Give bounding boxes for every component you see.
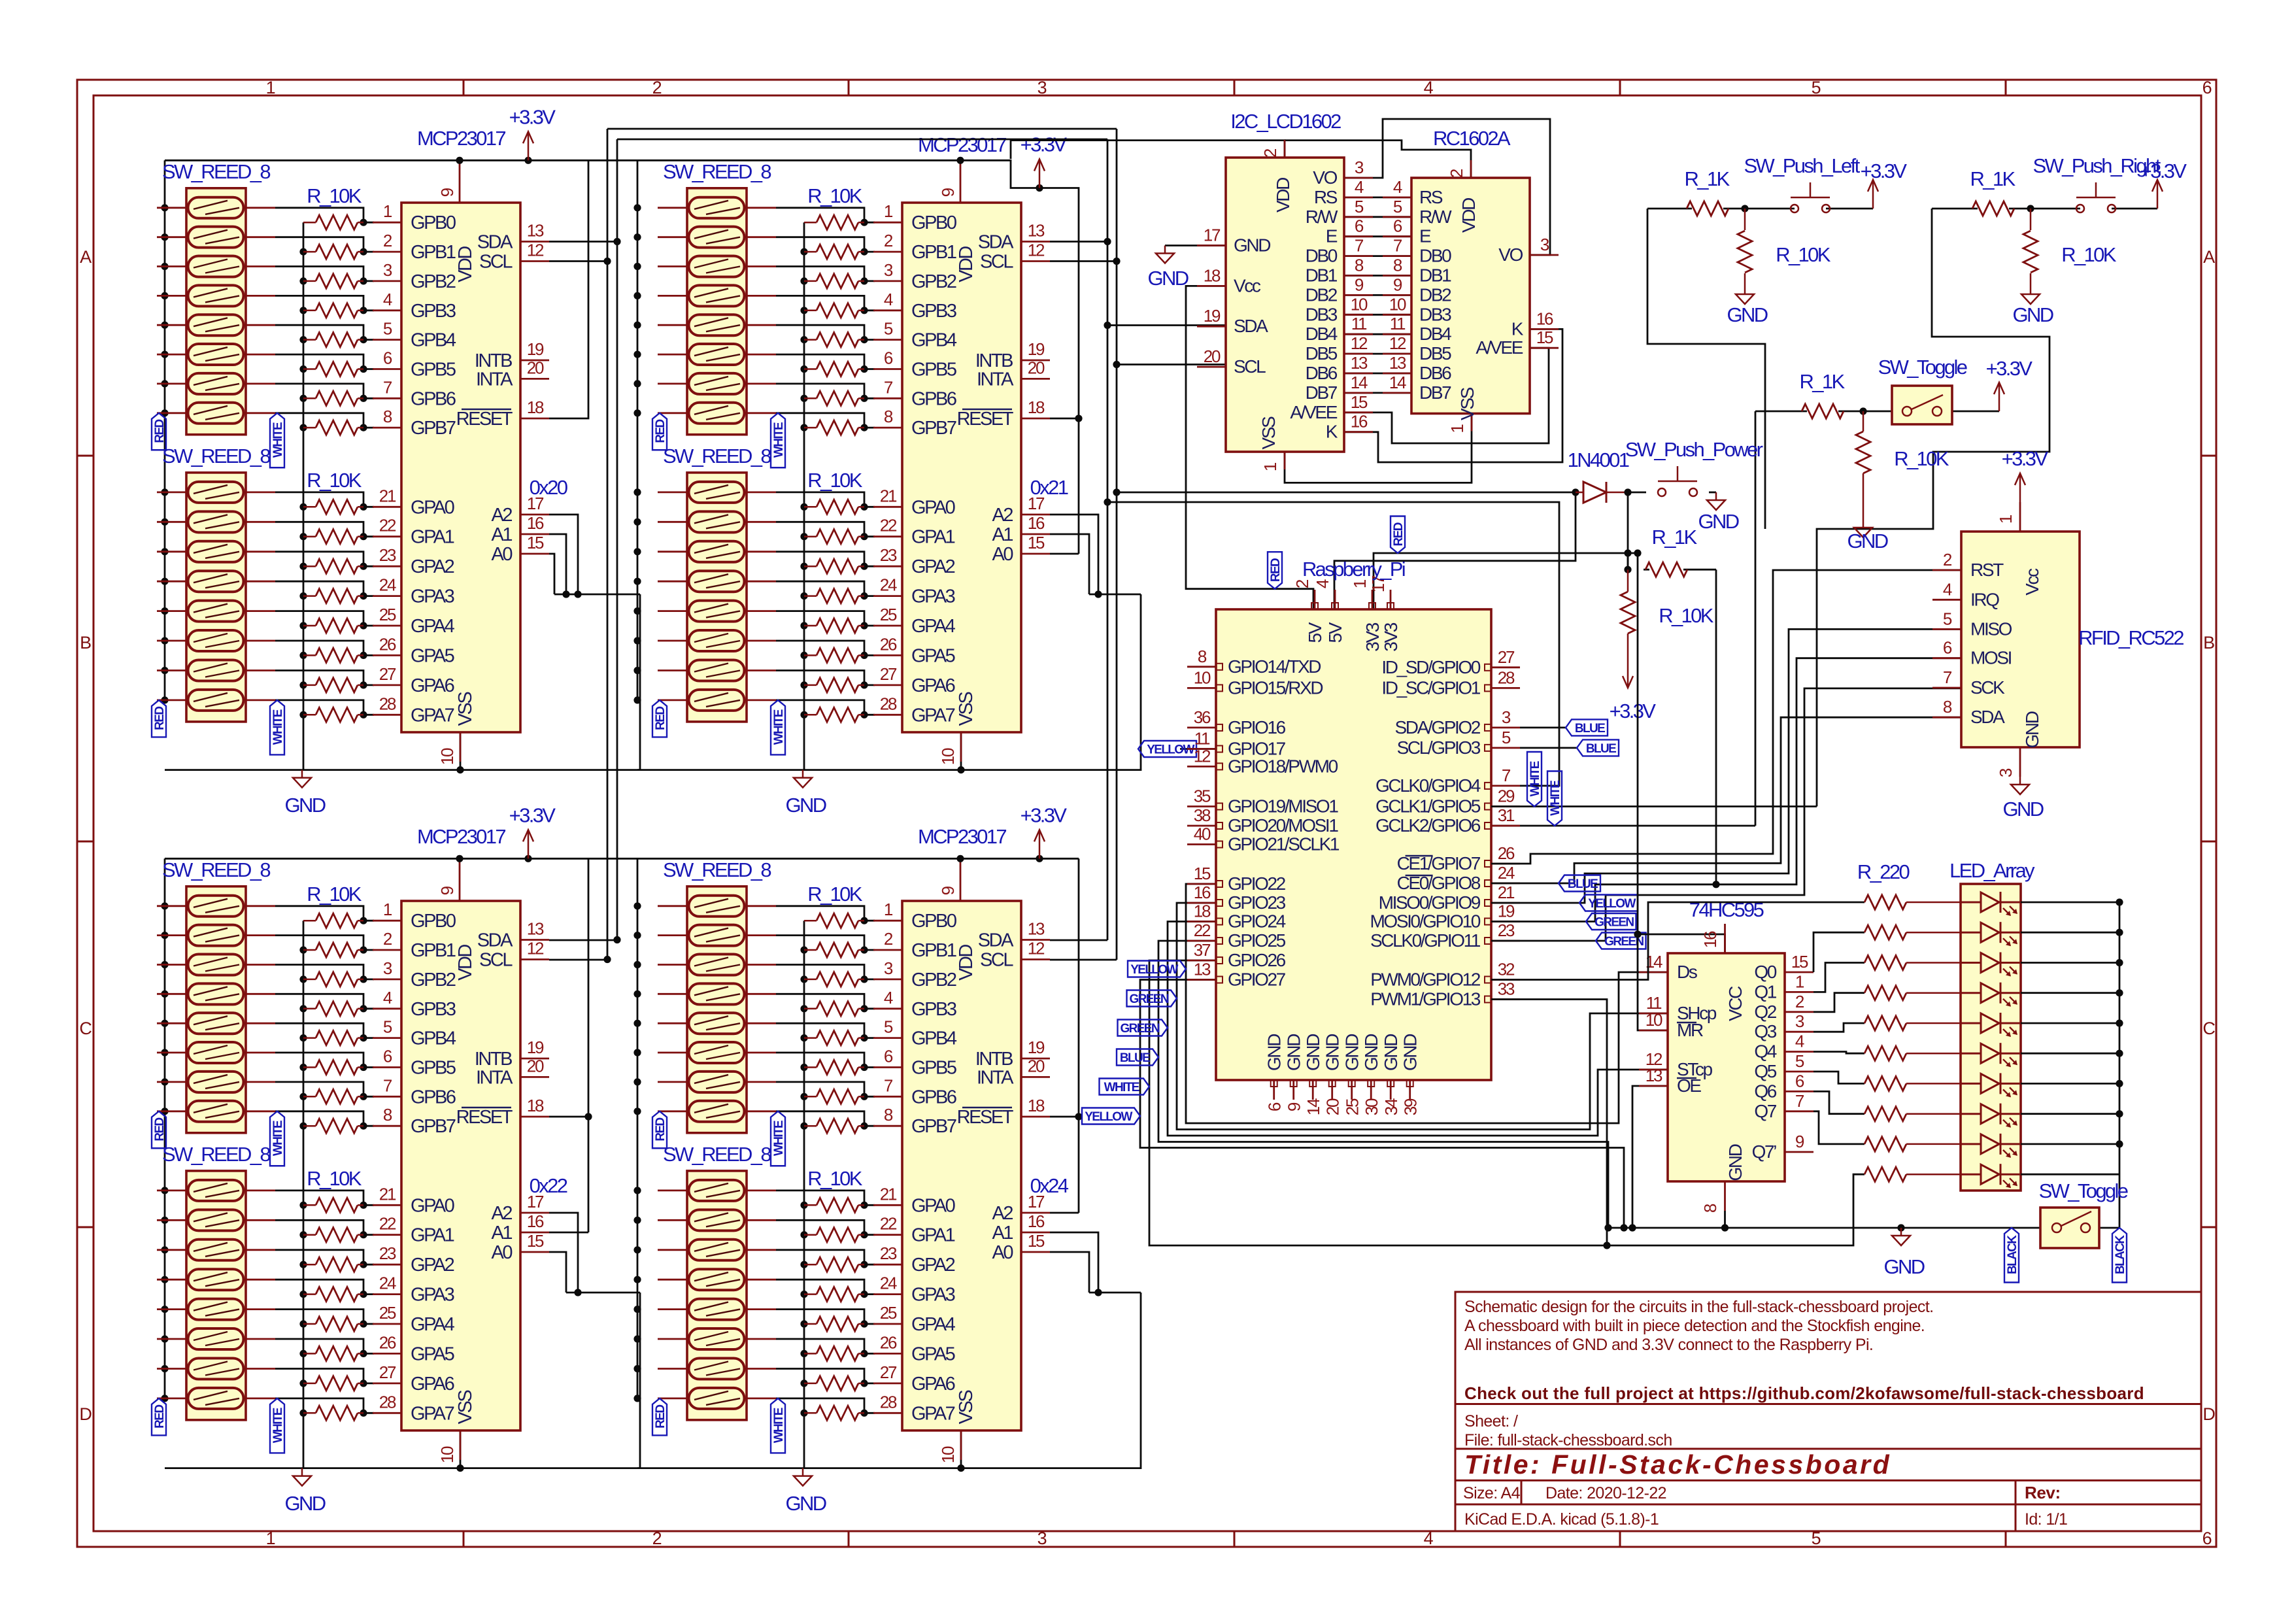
- svg-text:7: 7: [1795, 1091, 1804, 1111]
- resistor network R_10K lower (block 0x22): [303, 1198, 363, 1420]
- svg-text:GPB1: GPB1: [411, 242, 456, 263]
- svg-text:IRQ: IRQ: [1970, 589, 1999, 609]
- svg-text:Size: A4: Size: A4: [1463, 1484, 1521, 1502]
- svg-text:BLACK: BLACK: [2006, 1235, 2019, 1274]
- svg-text:GPA7: GPA7: [911, 705, 955, 726]
- junction dot VDD rail (block 0x21): [956, 157, 964, 164]
- svg-text:GND: GND: [1264, 1034, 1285, 1071]
- title block comment text: [1464, 1298, 1933, 1354]
- svg-text:6: 6: [1393, 216, 1402, 236]
- resistor R_10K GPA4 (block 0x21): [804, 618, 864, 633]
- svg-text:23: 23: [1498, 921, 1515, 940]
- svg-text:SW_REED_8: SW_REED_8: [162, 1143, 270, 1166]
- svg-text:SW_Push_Left: SW_Push_Left: [1744, 154, 1860, 177]
- svg-text:A: A: [2203, 247, 2215, 267]
- net label GREEN (GPIO23): [1127, 990, 1177, 1007]
- resistor R_1K (push left): [1687, 201, 1729, 216]
- resistor network R_10K lower (block 0x24): [804, 1198, 864, 1420]
- svg-text:9: 9: [1355, 275, 1364, 294]
- junction dots resistor common (block 0x20): [299, 248, 307, 719]
- svg-text:RESET: RESET: [957, 409, 1014, 430]
- resistor R_10K GPA7 (block 0x24): [804, 1406, 864, 1420]
- svg-text:BLUE: BLUE: [1568, 877, 1598, 891]
- wire reed common bus (block 0x21): [637, 160, 639, 700]
- MCP23017 I/O expander (block 0x20): [373, 160, 549, 765]
- svg-text:11: 11: [1194, 729, 1210, 749]
- svg-text:21: 21: [880, 486, 897, 505]
- border row letters: [79, 247, 2215, 1424]
- resistor R_10K GPB1 (block 0x22): [303, 943, 363, 957]
- svg-text:+3.3V: +3.3V: [2002, 447, 2049, 470]
- svg-text:Title: Full-Stack-Chessboard: Title: Full-Stack-Chessboard: [1464, 1449, 1891, 1480]
- svg-text:GPA5: GPA5: [411, 1344, 454, 1364]
- svg-text:1: 1: [1260, 462, 1280, 471]
- resistor array R_220: [1864, 895, 1961, 1181]
- svg-text:+3.3V: +3.3V: [1020, 804, 1068, 826]
- svg-text:R_10K: R_10K: [807, 184, 863, 207]
- svg-text:6: 6: [1355, 216, 1364, 236]
- svg-text:GPA2: GPA2: [911, 556, 955, 577]
- svg-text:GPB0: GPB0: [911, 212, 956, 233]
- svg-text:DB6: DB6: [1306, 363, 1338, 383]
- wire 3V3 pin feed: [1374, 549, 1638, 609]
- svg-text:R_10K: R_10K: [807, 1167, 863, 1190]
- svg-text:8: 8: [383, 407, 392, 426]
- svg-text:RED: RED: [153, 1405, 167, 1429]
- resistor R_10K GPB1 (block 0x24): [804, 943, 864, 957]
- svg-text:ID_SC/GPIO1: ID_SC/GPIO1: [1381, 677, 1480, 698]
- svg-text:SCL: SCL: [980, 252, 1013, 273]
- svg-text:VSS: VSS: [956, 692, 977, 726]
- svg-text:GPB4: GPB4: [911, 1028, 957, 1049]
- svg-text:31: 31: [1498, 805, 1515, 825]
- svg-text:15: 15: [1028, 533, 1045, 552]
- net label RED (block 0x20 upper): [152, 413, 166, 450]
- svg-text:RED: RED: [654, 419, 667, 443]
- junction dot SW_Push_Right: [2027, 205, 2034, 212]
- svg-text:Ds: Ds: [1677, 962, 1697, 982]
- svg-text:A2: A2: [992, 1203, 1013, 1224]
- svg-text:BLACK: BLACK: [2114, 1235, 2127, 1274]
- resistor R_10K GPA2 (block 0x22): [303, 1257, 363, 1272]
- reed switch array SW_REED_8 upper (block 0x21): [658, 188, 776, 435]
- MCP23017 I/O expander (block 0x21): [873, 160, 1050, 765]
- resistor R_10K GPA6 (block 0x21): [804, 678, 864, 692]
- svg-text:GREEN: GREEN: [1594, 916, 1634, 930]
- svg-text:25: 25: [379, 1303, 396, 1323]
- reed switch array SW_REED_8 lower (block 0x20): [157, 473, 275, 722]
- svg-text:GPB6: GPB6: [911, 388, 956, 409]
- net label GREEN (SCLK0/GPIO11): [1596, 933, 1646, 949]
- resistor R_220 LED2: [1864, 956, 1961, 970]
- svg-text:24: 24: [379, 1274, 396, 1293]
- svg-text:12: 12: [1194, 746, 1211, 766]
- svg-text:GCLK2/GPIO6: GCLK2/GPIO6: [1375, 815, 1481, 836]
- svg-text:GPA4: GPA4: [411, 616, 455, 637]
- svg-text:15: 15: [1351, 392, 1368, 412]
- wires address pins (block 0x22): [549, 1113, 640, 1296]
- svg-text:VCC: VCC: [1725, 986, 1746, 1021]
- resistor R_10K GPB2 (block 0x21): [804, 274, 864, 288]
- wire LCD Vcc to Raspberry Pi 5V: [1186, 286, 1313, 609]
- svg-text:LED_Array: LED_Array: [1949, 859, 2035, 882]
- svg-text:GPB7: GPB7: [411, 418, 456, 439]
- svg-text:Sheet: /: Sheet: /: [1464, 1412, 1518, 1430]
- resistor R_220 LED4: [1864, 1016, 1961, 1030]
- svg-text:DB6: DB6: [1419, 363, 1451, 383]
- +3.3V power symbol (block 0x24): [1034, 830, 1045, 862]
- svg-text:GPA5: GPA5: [411, 645, 454, 666]
- svg-text:18: 18: [1204, 265, 1221, 285]
- resistor R_220 LED5: [1864, 1046, 1961, 1060]
- svg-text:20: 20: [527, 358, 544, 377]
- junction dots at resistor outputs (block 0x21): [860, 219, 868, 719]
- svg-text:16: 16: [1194, 883, 1211, 902]
- svg-text:6: 6: [1795, 1071, 1804, 1091]
- svg-text:16: 16: [527, 513, 544, 533]
- +3.3V symbol (toggle): [1994, 382, 2004, 411]
- wire MCP block1 SCL to trunk: [549, 260, 607, 262]
- net label RED (block 0x21 lower): [652, 700, 667, 737]
- svg-text:YELLOW: YELLOW: [1085, 1110, 1132, 1124]
- svg-text:GPB3: GPB3: [411, 999, 456, 1020]
- resistor R_10K GPA7 (block 0x20): [303, 707, 363, 722]
- svg-text:19: 19: [1204, 306, 1221, 326]
- 74HC595 shift register: [1639, 924, 1813, 1213]
- svg-text:D: D: [2202, 1404, 2215, 1424]
- svg-text:WHITE: WHITE: [271, 1408, 285, 1443]
- resistor R_10K GPA2 (block 0x21): [804, 559, 864, 573]
- svg-text:GPB5: GPB5: [411, 1058, 456, 1079]
- svg-text:RED: RED: [654, 1117, 667, 1141]
- svg-text:GPA1: GPA1: [911, 1225, 955, 1246]
- svg-text:GPB4: GPB4: [411, 1028, 456, 1049]
- svg-text:9: 9: [1285, 1102, 1304, 1111]
- svg-text:2: 2: [884, 929, 893, 949]
- net label WHITE (block 0x20 upper): [270, 413, 284, 468]
- svg-text:26: 26: [379, 634, 396, 654]
- svg-text:27: 27: [880, 664, 897, 684]
- GND symbol (LED driver): [1892, 1228, 1910, 1245]
- svg-text:MCP23017: MCP23017: [918, 825, 1006, 848]
- svg-text:3: 3: [1795, 1011, 1804, 1031]
- resistor R_10K GPA4 (block 0x24): [804, 1317, 864, 1331]
- svg-text:GPA6: GPA6: [411, 675, 454, 696]
- svg-text:RST: RST: [1970, 560, 2004, 580]
- svg-text:15: 15: [1536, 328, 1553, 347]
- wire +3.3V rail (block 0x21): [637, 160, 1079, 418]
- svg-text:39: 39: [1401, 1098, 1421, 1115]
- wire LCD SDA to trunk: [1107, 324, 1226, 326]
- svg-text:GPA6: GPA6: [911, 675, 955, 696]
- svg-text:A2: A2: [491, 505, 512, 526]
- resistor R_10K (push right): [2023, 209, 2038, 286]
- svg-text:INTB: INTB: [475, 350, 512, 371]
- svg-text:GREEN: GREEN: [1129, 992, 1168, 1006]
- junction dots LED common: [2116, 898, 2123, 1147]
- svg-text:3V3: 3V3: [1362, 622, 1383, 651]
- wire diode to power button: [1628, 492, 1646, 494]
- resistor R_10K GPA5 (block 0x22): [303, 1346, 363, 1361]
- svg-text:28: 28: [379, 1392, 396, 1412]
- net label RED (block 0x20 lower): [152, 700, 166, 737]
- svg-text:23: 23: [880, 1243, 897, 1263]
- svg-text:4: 4: [1795, 1032, 1804, 1051]
- svg-text:6: 6: [1943, 638, 1952, 658]
- svg-text:R_1K: R_1K: [1970, 167, 2016, 190]
- reed switch array SW_REED_8 upper (block 0x24): [658, 887, 776, 1133]
- wire VSS pin to GND rail (block 0x21): [960, 732, 962, 770]
- svg-text:GPA3: GPA3: [911, 1285, 955, 1306]
- svg-text:SCLK0/GPIO11: SCLK0/GPIO11: [1370, 930, 1481, 951]
- svg-text:R_10K: R_10K: [807, 883, 863, 905]
- svg-text:GPA0: GPA0: [911, 1195, 955, 1216]
- resistor R_10K GPB7 (block 0x20): [303, 420, 363, 435]
- net label GREEN (GPIO24): [1118, 1020, 1168, 1036]
- net label WHITE (block 0x21 upper): [771, 413, 785, 468]
- GND symbol (power button): [1707, 492, 1725, 510]
- svg-text:VDD: VDD: [956, 945, 977, 981]
- svg-text:A: A: [80, 247, 92, 267]
- svg-text:VSS: VSS: [455, 1390, 476, 1425]
- svg-text:3: 3: [383, 958, 392, 978]
- svg-text:C: C: [2202, 1019, 2215, 1038]
- svg-text:GND: GND: [1323, 1034, 1343, 1071]
- svg-text:A chessboard with built in pie: A chessboard with built in piece detecti…: [1464, 1317, 1925, 1335]
- svg-text:14: 14: [1351, 373, 1368, 392]
- svg-text:23: 23: [379, 1243, 396, 1263]
- svg-text:SW_REED_8: SW_REED_8: [663, 1143, 771, 1166]
- net label WHITE (block 0x22 upper): [270, 1111, 284, 1166]
- svg-text:A0: A0: [992, 544, 1013, 565]
- svg-text:WHITE: WHITE: [772, 709, 786, 745]
- svg-text:MCP23017: MCP23017: [417, 825, 505, 848]
- svg-text:GPB3: GPB3: [911, 301, 956, 322]
- svg-text:WHITE: WHITE: [271, 422, 285, 458]
- svg-text:A0: A0: [491, 544, 512, 565]
- svg-text:B: B: [2203, 633, 2214, 652]
- svg-text:GPIO15/RXD: GPIO15/RXD: [1228, 677, 1323, 698]
- svg-text:11: 11: [1351, 314, 1367, 333]
- junction dots SCL trunk: [603, 258, 1120, 963]
- svg-text:E: E: [1419, 226, 1431, 246]
- title block size and date: [1463, 1483, 2061, 1502]
- svg-text:R_10K: R_10K: [1894, 447, 1949, 470]
- wire GND rail (block 0x20): [165, 594, 640, 770]
- resistor R_1K (toggle): [1802, 404, 1844, 418]
- resistor R_10K GPA0 (block 0x20): [303, 499, 363, 514]
- junction dots reed bus (block 0x20): [161, 204, 168, 703]
- svg-text:MCP23017: MCP23017: [417, 127, 505, 150]
- svg-text:GPB2: GPB2: [911, 970, 956, 990]
- wires address pins (block 0x21): [1050, 414, 1141, 598]
- RFID_RC522 reader: [1932, 502, 2080, 777]
- svg-text:+3.3V: +3.3V: [1020, 133, 1068, 156]
- wires address pins (block 0x24): [1050, 1113, 1141, 1296]
- svg-text:RFID_RC522: RFID_RC522: [2078, 626, 2184, 649]
- svg-text:A/VEE: A/VEE: [1290, 402, 1337, 422]
- svg-text:GPIO20/MOSI1: GPIO20/MOSI1: [1228, 815, 1338, 836]
- svg-text:16: 16: [1351, 412, 1368, 431]
- push button SW_Push_Right: [2076, 182, 2116, 212]
- svg-text:GND: GND: [1234, 235, 1270, 256]
- svg-text:4: 4: [1313, 579, 1332, 588]
- resistor R_10K GPA3 (block 0x20): [303, 589, 363, 603]
- svg-text:A1: A1: [491, 1223, 512, 1243]
- resistor R_220 LED3: [1864, 986, 1961, 1000]
- +3.3V symbol (RFID): [2015, 473, 2025, 502]
- diode 1N4001: [1576, 482, 1628, 503]
- wire resistor common to GND rail (block 0x21): [803, 222, 805, 770]
- svg-text:6: 6: [884, 1047, 893, 1066]
- svg-text:GPB0: GPB0: [411, 911, 456, 932]
- svg-text:7: 7: [884, 377, 893, 397]
- svg-text:4: 4: [383, 290, 392, 309]
- junction dots at resistor outputs (block 0x24): [860, 917, 868, 1417]
- wire I2C SCL trunk: [549, 129, 1117, 960]
- svg-text:28: 28: [379, 694, 396, 713]
- svg-text:K: K: [1326, 422, 1338, 442]
- svg-text:YELLOW: YELLOW: [1147, 743, 1194, 757]
- svg-text:DB3: DB3: [1419, 304, 1451, 324]
- svg-text:1: 1: [383, 201, 392, 221]
- svg-text:GPIO24: GPIO24: [1228, 911, 1286, 932]
- wires 74HC595 outputs to resistors: [1813, 932, 1864, 1144]
- svg-text:SCL/GPIO3: SCL/GPIO3: [1397, 737, 1481, 758]
- resistor R_10K GPB7 (block 0x21): [804, 420, 864, 435]
- svg-text:16: 16: [1028, 513, 1045, 533]
- resistor R_10K GPB6 (block 0x24): [804, 1089, 864, 1104]
- wire resistor common to GND rail (block 0x20): [303, 222, 305, 770]
- svg-text:26: 26: [880, 1332, 897, 1352]
- svg-text:SW_REED_8: SW_REED_8: [162, 445, 270, 467]
- svg-text:Vcc: Vcc: [1234, 275, 1261, 296]
- svg-text:13: 13: [527, 221, 544, 241]
- svg-text:0x24: 0x24: [1030, 1174, 1069, 1197]
- resistor network R_10K upper (block 0x24): [804, 913, 864, 1133]
- svg-text:GPA6: GPA6: [911, 1374, 955, 1395]
- svg-text:5: 5: [1502, 728, 1511, 747]
- svg-text:2: 2: [383, 929, 392, 949]
- svg-text:5: 5: [383, 319, 392, 339]
- svg-text:12: 12: [1028, 241, 1045, 260]
- resistor network R_10K upper (block 0x21): [804, 215, 864, 435]
- MCP23017 I/O expander (block 0x24): [873, 858, 1050, 1463]
- svg-text:20: 20: [1028, 358, 1045, 377]
- svg-text:Q4: Q4: [1754, 1041, 1776, 1062]
- svg-text:PWM1/GPIO13: PWM1/GPIO13: [1370, 989, 1481, 1009]
- svg-text:33: 33: [1498, 979, 1515, 999]
- svg-text:RED: RED: [654, 1405, 667, 1429]
- svg-text:INTA: INTA: [476, 1067, 513, 1088]
- svg-text:8: 8: [884, 1105, 893, 1125]
- svg-text:GPB7: GPB7: [911, 1116, 956, 1137]
- wire LCD K to RC1602A K: [1344, 329, 1562, 462]
- title block frame: [1455, 1292, 2201, 1531]
- svg-text:Rev:: Rev:: [2025, 1483, 2061, 1502]
- svg-text:VSS: VSS: [1457, 387, 1477, 420]
- svg-text:15: 15: [527, 533, 544, 552]
- svg-text:2: 2: [1260, 148, 1280, 158]
- svg-text:5: 5: [1943, 609, 1952, 628]
- MCP23017 I/O expander (block 0x22): [373, 858, 549, 1463]
- svg-text:SCL: SCL: [1234, 356, 1266, 377]
- svg-text:MCP23017: MCP23017: [918, 133, 1006, 156]
- svg-text:Vcc: Vcc: [2022, 568, 2042, 596]
- net label BLUE (SDA/GPIO2): [1566, 719, 1608, 736]
- svg-text:27: 27: [880, 1362, 897, 1382]
- resistor R_10K GPB4 (block 0x22): [303, 1031, 363, 1045]
- svg-text:GND: GND: [285, 794, 326, 817]
- svg-text:GPA1: GPA1: [911, 527, 955, 548]
- svg-text:BLUE: BLUE: [1586, 742, 1616, 756]
- svg-text:GPB5: GPB5: [911, 1058, 956, 1079]
- svg-text:VDD: VDD: [455, 246, 476, 282]
- svg-text:RED: RED: [153, 707, 167, 730]
- svg-text:27: 27: [379, 1362, 396, 1382]
- title block kicad version: [1464, 1510, 2067, 1529]
- svg-text:19: 19: [1028, 339, 1045, 359]
- resistor R_10K GPA0 (block 0x22): [303, 1198, 363, 1212]
- svg-text:8: 8: [1700, 1204, 1720, 1213]
- svg-text:GPA3: GPA3: [411, 1285, 454, 1306]
- resistor R_10K GPB1 (block 0x21): [804, 245, 864, 259]
- svg-text:GND: GND: [1400, 1034, 1421, 1071]
- svg-text:D: D: [79, 1404, 92, 1424]
- svg-text:18: 18: [1194, 902, 1211, 921]
- svg-text:GPB6: GPB6: [411, 388, 456, 409]
- svg-text:7: 7: [1943, 668, 1952, 687]
- svg-text:Raspberry_Pi: Raspberry_Pi: [1302, 558, 1405, 581]
- resistor R_220 LED6: [1864, 1076, 1961, 1091]
- wires reed outputs to pins (block 0x21): [776, 208, 875, 715]
- svg-text:A1: A1: [992, 524, 1013, 545]
- svg-text:BLUE: BLUE: [1575, 722, 1605, 736]
- svg-text:GND: GND: [1361, 1034, 1381, 1071]
- svg-text:GPIO16: GPIO16: [1228, 717, 1286, 737]
- svg-text:28: 28: [1498, 668, 1515, 687]
- wire LCD VO to RC1602A VO loop: [1344, 119, 1550, 255]
- svg-text:+3.3V: +3.3V: [1986, 357, 2033, 380]
- svg-text:3: 3: [383, 260, 392, 280]
- svg-text:37: 37: [1194, 940, 1211, 960]
- svg-text:GPB0: GPB0: [411, 212, 456, 233]
- svg-text:23: 23: [379, 545, 396, 565]
- svg-text:GPA6: GPA6: [411, 1374, 454, 1395]
- svg-text:25: 25: [1343, 1098, 1362, 1115]
- net label RED on 3V3 wire: [1391, 516, 1405, 554]
- svg-text:R_10K: R_10K: [307, 469, 362, 492]
- resistor R_10K GPB3 (block 0x20): [303, 303, 363, 318]
- resistor R_10K GPB0 (block 0x22): [303, 913, 363, 928]
- svg-text:25: 25: [880, 1303, 897, 1323]
- svg-text:20: 20: [1323, 1098, 1343, 1115]
- resistor R_10K GPB6 (block 0x20): [303, 391, 363, 405]
- svg-text:KiCad E.D.A. kicad (5.1.8)-1: KiCad E.D.A. kicad (5.1.8)-1: [1464, 1510, 1659, 1529]
- reed switch array SW_REED_8 upper (block 0x22): [157, 887, 275, 1133]
- wire 5V feed to diode: [1117, 492, 1576, 609]
- svg-text:GPA0: GPA0: [911, 497, 955, 518]
- svg-text:2: 2: [884, 231, 893, 250]
- svg-text:MISO0/GPIO9: MISO0/GPIO9: [1379, 892, 1481, 913]
- svg-text:Check out the full project at: Check out the full project at https://gi…: [1464, 1383, 2144, 1403]
- svg-text:1: 1: [266, 1529, 275, 1548]
- wires LCD to RC1602A data and control: [1344, 197, 1411, 393]
- svg-text:2: 2: [652, 1529, 662, 1548]
- +3.3V power symbol (block 0x21): [1034, 160, 1045, 192]
- svg-text:RESET: RESET: [456, 409, 513, 430]
- resistor R_10K GPA5 (block 0x20): [303, 648, 363, 662]
